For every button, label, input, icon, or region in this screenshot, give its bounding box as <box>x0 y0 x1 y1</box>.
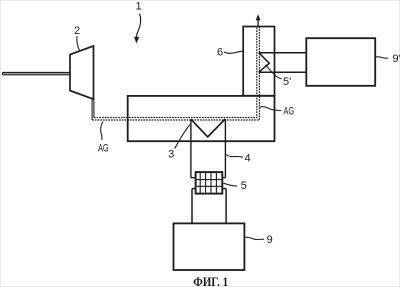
leader for label 6 <box>224 51 243 53</box>
leader for AG right <box>260 107 281 111</box>
svg-text:2: 2 <box>74 25 80 37</box>
stack duct 6 (vertical rectangle) <box>243 27 274 96</box>
svg-text:5: 5 <box>241 180 247 192</box>
vertical duct 4 walls (upper) <box>191 119 226 178</box>
leader for label 5' <box>266 65 282 79</box>
svg-text:9: 9 <box>267 234 273 246</box>
svg-text:1: 1 <box>136 1 142 13</box>
leader for label 2 <box>77 36 80 51</box>
svg-text:AG: AG <box>98 142 109 154</box>
svg-text:5': 5' <box>283 76 291 88</box>
leader for label 4 <box>226 155 243 158</box>
lower duct (between grid 5 and box 9) <box>192 189 226 224</box>
turbine exhaust double line (down from turbine) <box>92 99 94 120</box>
horizontal exhaust duct (central rectangle) <box>128 96 275 141</box>
funnel 3 (V-shape inside duct) <box>191 119 225 137</box>
leader for AG left <box>101 122 103 141</box>
shaft (rotor) of turbine 2 <box>3 72 71 74</box>
svg-text:6: 6 <box>217 46 223 58</box>
catalyst / grid element 5 <box>196 172 223 194</box>
svg-text:4: 4 <box>244 152 250 164</box>
svg-text:9': 9' <box>393 53 400 65</box>
svg-text:3: 3 <box>168 149 174 161</box>
leader for label 9 <box>245 237 264 239</box>
exhaust arrow at stack top <box>257 20 259 27</box>
silencer box 9' (right) <box>306 38 375 86</box>
svg-text:ФИГ. 1: ФИГ. 1 <box>193 274 228 287</box>
leader for label 5 <box>223 183 237 186</box>
leader for label 9' <box>376 57 388 58</box>
svg-text:AG: AG <box>284 105 295 117</box>
leader for label 3 <box>175 124 190 148</box>
arrow leader for label 1 <box>136 14 140 39</box>
box 9 (bottom) <box>174 223 245 270</box>
flap / damper 5' in stack <box>259 53 307 72</box>
turbine 2 (trapezoid) <box>70 46 94 99</box>
AG exhaust-gas dashed path (horizontal + up the stack) <box>92 27 259 121</box>
